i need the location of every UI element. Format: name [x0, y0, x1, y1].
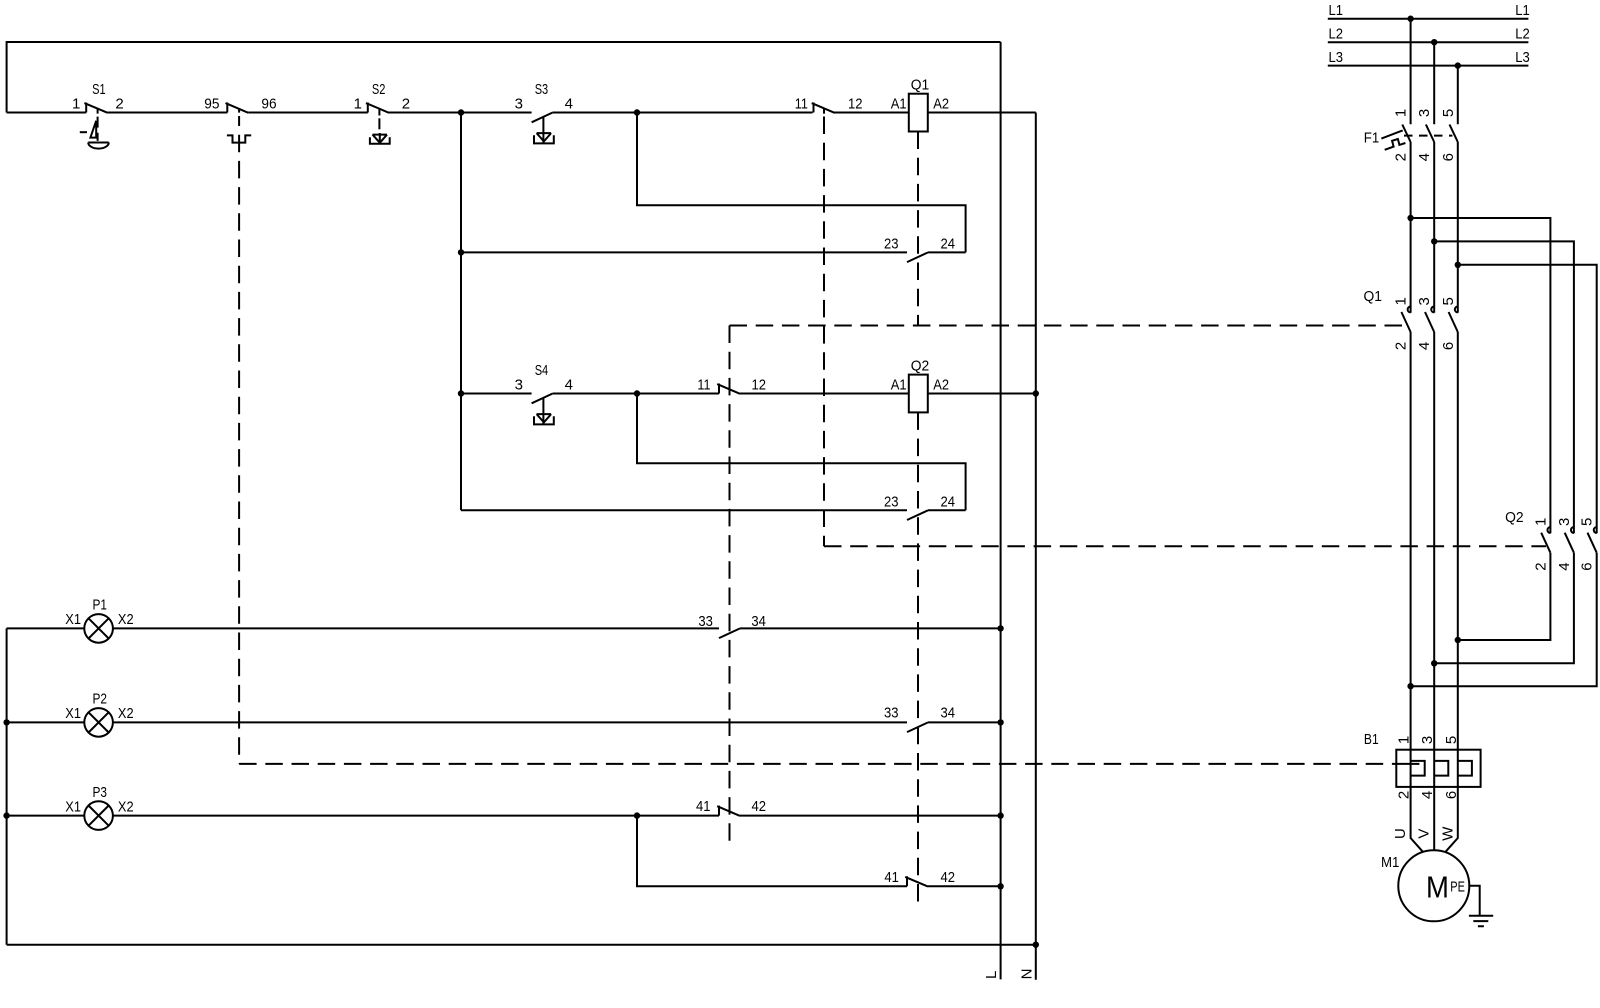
- svg-text:6: 6: [1440, 153, 1457, 161]
- svg-text:L2: L2: [1515, 25, 1530, 42]
- wire Q2 output crossover 3: [1411, 553, 1597, 687]
- wire lamp circuit left rail: [6, 628, 8, 944]
- motor breaker F1 (3-pole): [1364, 109, 1458, 162]
- svg-text:3: 3: [1416, 109, 1433, 117]
- overload relay B1 NC contact 95-96: [204, 95, 276, 142]
- indicator lamp P1: [65, 597, 133, 643]
- power line L1: [1328, 18, 1529, 20]
- svg-text:2: 2: [1396, 791, 1413, 799]
- svg-text:23: 23: [884, 494, 899, 511]
- svg-text:B1: B1: [1364, 731, 1379, 748]
- S2 pushbutton actuator: [370, 133, 390, 144]
- wire rung P3: [7, 815, 1001, 817]
- mechanical link B1 overload trip (dashed, 95-96 down to B1): [238, 116, 240, 764]
- wire Q2 output crossover 1: [1458, 553, 1551, 640]
- svg-text:X2: X2: [118, 798, 134, 815]
- S1 minus sign: [80, 131, 87, 133]
- svg-text:4: 4: [1416, 342, 1433, 350]
- B1 heater pole 3: [1458, 761, 1472, 776]
- svg-text:95: 95: [204, 95, 219, 112]
- Q1 NC aux contact 41-42 (rung P3): [696, 798, 766, 816]
- contactor coil Q1: [891, 77, 949, 132]
- node junction L1 tap: [1407, 16, 1413, 22]
- svg-text:U: U: [1392, 828, 1409, 839]
- node junction L3 tap: [1455, 62, 1461, 68]
- svg-text:3: 3: [515, 376, 523, 393]
- wire phase 2 vertical: [1433, 42, 1435, 850]
- node junction phase1 Q2-branch tap: [1407, 215, 1413, 221]
- svg-text:N: N: [1018, 969, 1035, 980]
- wire rung 1 (L to Q1 coil to N) segments: [7, 112, 1036, 114]
- node junction rung2 left: [458, 390, 464, 396]
- mechanical link Q1 chain vertical (dashed, through 11-12 rung2, 33-34 P1, 41-42 P3): [729, 326, 731, 842]
- node junction self-hold row left: [458, 249, 464, 255]
- S3 pushbutton actuator: [534, 133, 554, 143]
- node junction phase3 Q2-branch tap: [1455, 262, 1461, 268]
- node junction rung2 at N: [1033, 390, 1039, 396]
- svg-text:A1: A1: [891, 376, 907, 393]
- svg-text:X2: X2: [118, 611, 134, 628]
- B1 heater pole 1: [1411, 761, 1425, 776]
- wire Q2 output crossover 2: [1434, 553, 1574, 664]
- svg-text:2: 2: [115, 95, 123, 112]
- svg-text:12: 12: [752, 376, 767, 393]
- wire Q1 self-hold contact row: [461, 251, 966, 253]
- contactor Q1 NC interlock contact 11-12 (rung 2): [697, 376, 766, 394]
- svg-text:6: 6: [1579, 562, 1596, 570]
- S1 mushroom head: [88, 143, 109, 149]
- power line L2: [1328, 41, 1529, 43]
- wire branch vertical after S2: [460, 113, 462, 511]
- wire Q2 self-hold contact row: [461, 509, 966, 511]
- svg-text:S1: S1: [92, 81, 106, 98]
- overload relay B1 (3-pole thermal): [1364, 731, 1481, 799]
- svg-text:X1: X1: [65, 798, 81, 815]
- contactor Q2 main contacts (3-pole): [1505, 509, 1597, 571]
- svg-text:X2: X2: [118, 705, 134, 722]
- svg-text:X1: X1: [65, 611, 81, 628]
- svg-text:33: 33: [698, 613, 713, 630]
- svg-text:42: 42: [752, 798, 767, 815]
- contactor coil Q2: [891, 358, 949, 413]
- node junction rung P3 left: [3, 812, 9, 818]
- svg-text:34: 34: [751, 613, 766, 630]
- svg-text:1: 1: [1396, 736, 1413, 744]
- svg-text:11: 11: [795, 96, 808, 113]
- svg-text:96: 96: [261, 95, 276, 112]
- node junction rung P3 branch: [634, 812, 640, 818]
- svg-text:5: 5: [1440, 297, 1457, 305]
- B1 heater pole 2: [1434, 761, 1448, 776]
- svg-text:A2: A2: [933, 376, 949, 393]
- svg-text:V: V: [1416, 829, 1433, 839]
- start pushbutton S4 (NO): [515, 362, 573, 424]
- svg-text:Q1: Q1: [911, 77, 930, 94]
- svg-text:2: 2: [402, 95, 410, 112]
- Q1 NO aux contact 33-34 (rung P1): [698, 613, 766, 638]
- svg-text:L3: L3: [1515, 49, 1530, 66]
- svg-text:34: 34: [941, 704, 956, 721]
- F1 trip latch symbol: [1381, 130, 1402, 138]
- svg-text:11: 11: [697, 376, 710, 393]
- svg-text:M: M: [1426, 871, 1449, 905]
- node junction crossover 3: [1407, 683, 1413, 689]
- svg-text:5: 5: [1440, 109, 1457, 117]
- Q1 self-hold NO contact 23-24: [884, 236, 955, 262]
- svg-text:42: 42: [941, 869, 956, 886]
- power line L3: [1328, 65, 1529, 67]
- wire Q2 self-hold branch upper link: [637, 394, 966, 511]
- svg-text:6: 6: [1440, 342, 1457, 350]
- svg-text:P2: P2: [93, 691, 108, 708]
- wire rung P3 sub-branch: [637, 816, 1001, 887]
- svg-text:2: 2: [1532, 562, 1549, 570]
- wire Q1 self-hold branch upper link: [637, 113, 966, 253]
- wire Q2 branch tap 2: [1434, 241, 1574, 533]
- Q2 NO aux contact 33-34 (rung P2): [884, 704, 955, 732]
- svg-text:L1: L1: [1329, 2, 1344, 19]
- node junction crossover 2: [1431, 660, 1437, 666]
- svg-text:4: 4: [1416, 153, 1433, 161]
- node junction S2 output: [458, 109, 464, 115]
- stop pushbutton S2 (NC): [354, 81, 410, 144]
- node junction crossover 1: [1455, 637, 1461, 643]
- mechanical link Q2 interlock (dashed, 11-12 rung1 down and right to Q2 power contacts): [823, 109, 825, 114]
- svg-text:3: 3: [515, 95, 523, 112]
- svg-text:24: 24: [941, 236, 956, 253]
- svg-text:2: 2: [1393, 153, 1410, 161]
- Q2 NC aux contact 41-42 (branch): [884, 869, 955, 887]
- wire rung 2 (branch to Q2 coil to N) segments: [461, 393, 1036, 395]
- wire phase 3 vertical: [1445, 66, 1457, 852]
- svg-text:W: W: [1439, 826, 1456, 841]
- svg-text:P3: P3: [93, 784, 108, 801]
- wire control-circuit top border from L down-left corner: [7, 42, 1001, 113]
- svg-text:4: 4: [1556, 562, 1573, 570]
- node junction branch at L: [997, 883, 1003, 889]
- overload trip paddle symbol: [227, 135, 251, 142]
- svg-text:41: 41: [696, 798, 711, 815]
- wire rung P1: [7, 627, 1001, 629]
- wire Q2 branch tap 3: [1458, 265, 1597, 534]
- start pushbutton S3 (NO): [515, 81, 573, 143]
- svg-text:A1: A1: [891, 95, 907, 112]
- svg-text:3: 3: [1416, 297, 1433, 305]
- svg-text:4: 4: [565, 95, 573, 112]
- svg-text:4: 4: [1419, 791, 1436, 799]
- svg-text:PE: PE: [1450, 878, 1465, 895]
- emergency-stop switch S1 (NC, mushroom head): [72, 81, 124, 149]
- svg-text:P1: P1: [93, 597, 108, 614]
- indicator lamp P2: [65, 691, 133, 737]
- node junction rung P2 left: [3, 719, 9, 725]
- svg-text:1: 1: [1532, 518, 1549, 526]
- svg-text:12: 12: [848, 96, 863, 113]
- node junction S4 output: [634, 390, 640, 396]
- wire Q2 branch tap 1: [1411, 218, 1551, 533]
- svg-text:L3: L3: [1329, 49, 1344, 66]
- contactor Q1 main contacts (3-pole): [1364, 288, 1458, 350]
- node N vertical line: [1035, 113, 1037, 980]
- node L vertical line: [1000, 42, 1002, 979]
- motor M1: [1381, 850, 1469, 921]
- svg-text:1: 1: [354, 95, 362, 112]
- svg-text:24: 24: [941, 494, 956, 511]
- svg-text:23: 23: [884, 236, 899, 253]
- svg-text:3: 3: [1556, 518, 1573, 526]
- node junction rung P1 at L: [997, 625, 1003, 631]
- svg-text:6: 6: [1443, 791, 1460, 799]
- node junction bottom rail at N: [1033, 942, 1039, 948]
- node junction phase2 Q2-branch tap: [1431, 238, 1437, 244]
- mechanical link Q2 chain (dashed, coil Q2 via 23-24, 33-34 P2, 41-42 branch): [917, 412, 919, 905]
- svg-text:5: 5: [1443, 736, 1460, 744]
- svg-text:Q2: Q2: [911, 358, 930, 375]
- svg-text:1: 1: [1393, 297, 1410, 305]
- svg-text:1: 1: [72, 95, 80, 112]
- svg-text:1: 1: [1393, 109, 1410, 117]
- node junction rung P2 at L: [997, 719, 1003, 725]
- F1 trip linkage dashed: [1404, 135, 1452, 137]
- indicator lamp P3: [65, 784, 133, 830]
- S1 trigger triangle: [90, 121, 96, 138]
- svg-text:33: 33: [884, 704, 899, 721]
- svg-text:A2: A2: [933, 95, 949, 112]
- svg-text:F1: F1: [1364, 129, 1380, 146]
- wire lamp circuit bottom rail to N: [7, 944, 1036, 946]
- svg-text:2: 2: [1393, 342, 1410, 350]
- svg-text:41: 41: [884, 869, 899, 886]
- svg-text:S2: S2: [372, 81, 386, 98]
- svg-text:L: L: [983, 971, 1000, 979]
- node junction rung P3 at L: [997, 812, 1003, 818]
- node junction L2 tap: [1431, 39, 1437, 45]
- S4 pushbutton actuator: [534, 414, 554, 424]
- svg-text:S4: S4: [535, 362, 549, 379]
- svg-text:X1: X1: [65, 705, 81, 722]
- node junction S3 output: [634, 109, 640, 115]
- svg-text:Q1: Q1: [1364, 288, 1383, 305]
- svg-text:M1: M1: [1381, 854, 1399, 871]
- Q2 self-hold NO contact 23-24: [884, 494, 955, 520]
- wire rung P2: [7, 721, 1001, 723]
- svg-text:Q2: Q2: [1505, 509, 1524, 526]
- mechanical link Q1 chain (dashed, coil Q1 via 23-24 to power contacts): [917, 132, 919, 326]
- svg-text:4: 4: [565, 376, 573, 393]
- contactor Q2 NC interlock contact 11-12 (rung 1): [795, 96, 863, 113]
- svg-text:S3: S3: [535, 81, 549, 98]
- svg-text:L1: L1: [1515, 2, 1530, 19]
- svg-text:5: 5: [1579, 518, 1596, 526]
- svg-text:L2: L2: [1329, 25, 1344, 42]
- ground (PE): [1469, 886, 1493, 927]
- wire phase 1 vertical: [1411, 19, 1423, 852]
- svg-text:3: 3: [1419, 736, 1436, 744]
